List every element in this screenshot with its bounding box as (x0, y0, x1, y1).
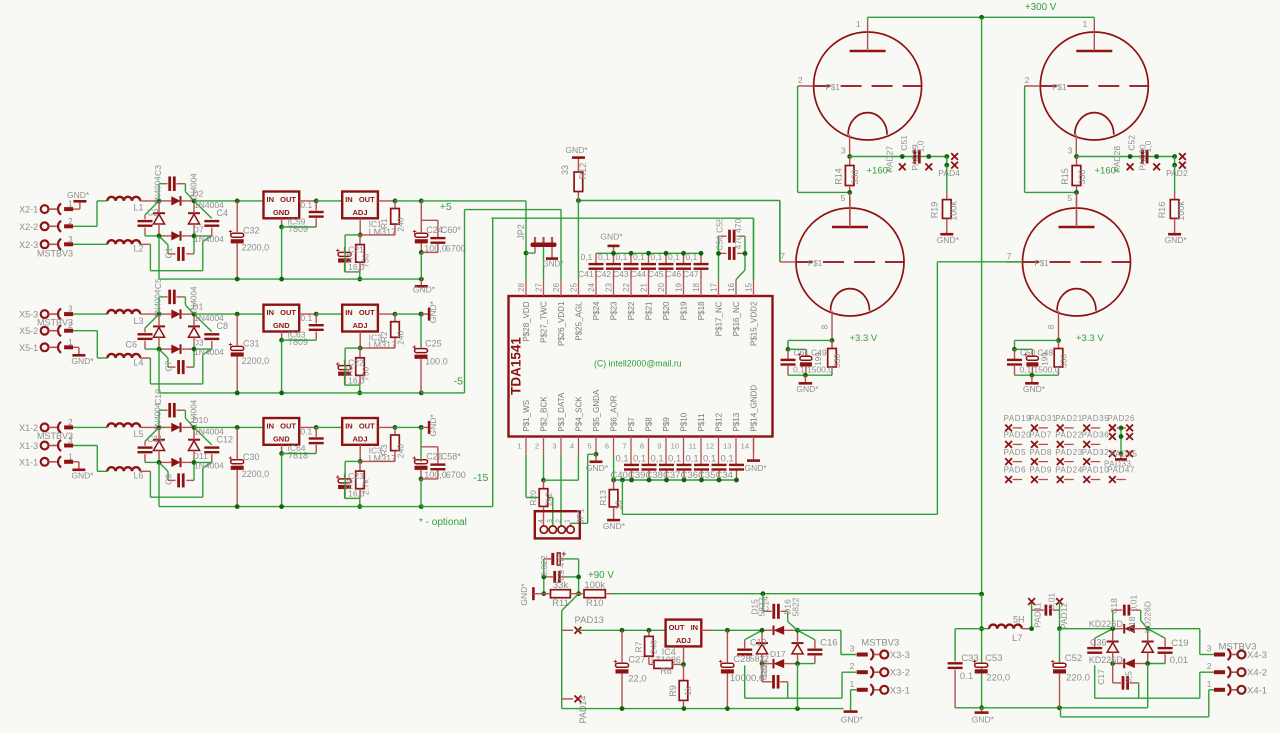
svg-text:C36: C36 (1090, 638, 1107, 648)
svg-text:0,1: 0,1 (651, 252, 663, 262)
svg-text:0,1: 0,1 (703, 454, 716, 465)
svg-text:X3-2: X3-2 (890, 668, 910, 679)
svg-text:KD226D: KD226D (1089, 655, 1124, 665)
svg-text:OUT: OUT (359, 195, 375, 204)
svg-text:ADJ: ADJ (676, 636, 691, 645)
svg-text:1N4004: 1N4004 (194, 460, 224, 470)
svg-text:C2: C2 (147, 208, 159, 218)
svg-text:330: 330 (1059, 354, 1069, 368)
svg-text:+: + (336, 248, 340, 255)
svg-text:R15: R15 (1060, 168, 1070, 185)
svg-text:R14: R14 (833, 168, 843, 185)
svg-text:1: 1 (1207, 679, 1212, 689)
svg-text:1N4004: 1N4004 (194, 347, 224, 357)
svg-text:C58*: C58* (441, 452, 462, 462)
svg-text:0,1: 0,1 (668, 252, 680, 262)
svg-text:X5-1: X5-1 (19, 343, 38, 353)
svg-text:IN: IN (345, 422, 353, 431)
svg-text:C43: C43 (613, 269, 629, 279)
svg-text:0,022: 0,022 (539, 555, 549, 577)
svg-text:21: 21 (640, 283, 649, 292)
svg-text:GND*: GND* (413, 285, 436, 295)
svg-text:X2-1: X2-1 (19, 205, 38, 215)
svg-text:R8: R8 (660, 666, 672, 676)
svg-text:MSTBV3: MSTBV3 (861, 637, 899, 648)
svg-text:3: 3 (841, 146, 846, 156)
svg-text:C6: C6 (126, 339, 138, 349)
svg-text:C9: C9 (164, 474, 174, 485)
svg-text:PAD30: PAD30 (1138, 144, 1148, 171)
svg-text:PAD15: PAD15 (1110, 449, 1138, 458)
svg-text:P$21: P$21 (645, 301, 654, 320)
svg-text:7809: 7809 (288, 224, 308, 234)
svg-text:0,01: 0,01 (1170, 655, 1189, 666)
svg-text:1: 1 (850, 679, 855, 689)
svg-text:D18: D18 (1127, 616, 1137, 632)
svg-text:11: 11 (689, 442, 697, 451)
svg-text:+: + (1051, 659, 1055, 666)
svg-text:2200,0: 2200,0 (242, 243, 270, 253)
svg-text:+: + (228, 342, 232, 349)
svg-text:GND*: GND* (543, 260, 564, 269)
svg-text:PAD36: PAD36 (1082, 431, 1110, 440)
svg-text:1500,0: 1500,0 (807, 364, 833, 374)
svg-text:2200,0: 2200,0 (242, 356, 270, 366)
svg-text:28: 28 (517, 283, 526, 292)
svg-text:PAD4: PAD4 (938, 168, 960, 178)
svg-text:5: 5 (587, 442, 591, 451)
svg-text:750: 750 (361, 253, 371, 267)
svg-text:2: 2 (1025, 75, 1030, 85)
svg-text:1500,0: 1500,0 (1034, 364, 1060, 374)
svg-text:1N4004: 1N4004 (154, 402, 163, 431)
svg-text:P$2_BCK: P$2_BCK (540, 396, 549, 432)
svg-text:0,1: 0,1 (598, 252, 610, 262)
svg-text:C41: C41 (578, 269, 594, 279)
svg-text:15: 15 (745, 283, 754, 292)
svg-text:2: 2 (556, 519, 563, 523)
svg-text:C52: C52 (1127, 135, 1137, 151)
svg-text:P$14_GNDD: P$14_GNDD (750, 385, 759, 432)
svg-text:GND*: GND* (796, 384, 819, 394)
svg-text:10: 10 (671, 442, 679, 451)
svg-text:C16: C16 (820, 638, 837, 649)
svg-text:8: 8 (821, 324, 830, 329)
svg-text:GND*: GND* (428, 300, 438, 323)
svg-text:+3.3 V: +3.3 V (850, 333, 878, 344)
svg-text:D1: D1 (193, 302, 204, 312)
svg-text:X5-2: X5-2 (19, 326, 38, 336)
svg-text:P$1: P$1 (808, 259, 823, 268)
svg-text:GND*: GND* (71, 356, 94, 366)
svg-text:X1-2: X1-2 (19, 423, 38, 433)
svg-text:P$12: P$12 (715, 412, 724, 431)
svg-text:5H: 5H (1013, 615, 1025, 625)
svg-text:8: 8 (1047, 324, 1056, 329)
svg-text:20: 20 (657, 283, 666, 292)
svg-text:C31: C31 (243, 339, 260, 349)
svg-text:0,1: 0,1 (793, 364, 805, 374)
svg-text:7: 7 (622, 442, 626, 451)
svg-text:X4-1: X4-1 (1247, 685, 1267, 696)
svg-text:L3: L3 (134, 316, 144, 326)
svg-text:R3: R3 (379, 444, 389, 455)
svg-text:33k: 33k (553, 580, 569, 591)
svg-text:5822: 5822 (757, 597, 767, 616)
svg-text:D10: D10 (193, 415, 209, 425)
svg-text:P$17_NC: P$17_NC (715, 301, 724, 336)
svg-text:R12: R12 (578, 163, 588, 180)
svg-text:7809: 7809 (288, 337, 308, 347)
svg-text:C56 C55: C56 C55 (715, 217, 725, 251)
svg-text:220.0: 220.0 (1066, 673, 1090, 684)
svg-text:PAD33: PAD33 (1104, 460, 1132, 469)
svg-text:2: 2 (68, 217, 73, 226)
svg-text:0.1: 0.1 (300, 426, 312, 436)
svg-text:2: 2 (535, 442, 539, 451)
svg-text:+: + (336, 475, 340, 482)
svg-text:9: 9 (657, 442, 661, 451)
svg-text:JP2: JP2 (516, 224, 526, 240)
svg-text:PAD6: PAD6 (1004, 466, 1027, 475)
svg-text:R9: R9 (668, 685, 678, 697)
svg-text:5822: 5822 (791, 597, 801, 616)
svg-text:PAD19: PAD19 (1004, 414, 1032, 423)
svg-text:P$11: P$11 (697, 413, 706, 432)
svg-text:MSTBV3: MSTBV3 (37, 431, 73, 441)
svg-text:24: 24 (587, 283, 596, 292)
svg-text:+5: +5 (440, 201, 452, 213)
svg-text:4: 4 (538, 519, 545, 523)
svg-text:C49: C49 (811, 348, 827, 358)
svg-text:12: 12 (706, 442, 714, 451)
svg-text:D3: D3 (193, 338, 204, 348)
svg-text:L5: L5 (134, 429, 144, 439)
svg-text:C8: C8 (217, 321, 229, 331)
svg-text:GND*: GND* (565, 145, 588, 155)
svg-text:-15: -15 (473, 472, 488, 484)
svg-text:C5: C5 (153, 278, 163, 289)
svg-text:0,1: 0,1 (616, 252, 628, 262)
svg-text:PAD21: PAD21 (1055, 414, 1083, 423)
svg-text:P$3_DATA: P$3_DATA (557, 392, 566, 431)
svg-text:220,0: 220,0 (986, 673, 1010, 684)
svg-text:PAD11: PAD11 (1033, 602, 1043, 628)
svg-text:KD226D: KD226D (1089, 619, 1124, 629)
svg-text:C50: C50 (1020, 348, 1036, 358)
svg-text:* - optional: * - optional (419, 517, 467, 528)
svg-text:P$6_AOR: P$6_AOR (610, 395, 619, 431)
svg-text:25: 25 (570, 283, 579, 292)
svg-text:GND*: GND* (71, 470, 94, 480)
svg-text:+: + (413, 229, 417, 236)
svg-text:+: + (412, 456, 416, 463)
svg-text:D2: D2 (193, 188, 204, 198)
svg-text:R7: R7 (634, 641, 644, 652)
svg-text:PAD35: PAD35 (1082, 414, 1110, 423)
svg-text:2k2: 2k2 (544, 492, 554, 506)
svg-text:(C) intell2000@mail.ru: (C) intell2000@mail.ru (594, 359, 682, 369)
svg-text:3: 3 (547, 519, 554, 523)
svg-text:GND*: GND* (586, 463, 609, 473)
svg-text:2: 2 (1207, 661, 1212, 671)
svg-text:MSTBV3: MSTBV3 (37, 249, 73, 259)
svg-text:<: < (1115, 166, 1120, 176)
svg-text:X1-1: X1-1 (19, 457, 38, 467)
svg-text:C35: C35 (698, 470, 715, 481)
svg-text:0,01: 0,01 (1047, 592, 1057, 609)
svg-text:0,5: 0,5 (1124, 671, 1134, 683)
svg-text:C53: C53 (985, 653, 1002, 664)
svg-text:IN: IN (267, 422, 275, 431)
svg-text:240: 240 (396, 444, 406, 458)
svg-text:100.0: 100.0 (425, 357, 448, 367)
svg-text:P$20: P$20 (662, 301, 671, 320)
svg-text:X1-3: X1-3 (19, 441, 38, 451)
svg-text:TDA1541: TDA1541 (509, 337, 524, 395)
svg-text:R11: R11 (552, 598, 569, 609)
svg-text:1N4004: 1N4004 (154, 289, 163, 318)
svg-text:C39: C39 (628, 470, 645, 481)
svg-text:C45: C45 (648, 269, 664, 279)
svg-text:C12: C12 (217, 434, 234, 444)
svg-text:0,1: 0,1 (686, 252, 698, 262)
svg-text:P$5_GNDA: P$5_GNDA (592, 389, 601, 431)
svg-text:0.1: 0.1 (300, 313, 312, 323)
svg-text:6700: 6700 (446, 244, 466, 254)
svg-text:P$19: P$19 (680, 301, 689, 320)
svg-text:100k: 100k (1176, 201, 1186, 221)
svg-text:33: 33 (560, 165, 570, 175)
svg-text:1N4004: 1N4004 (194, 234, 224, 244)
svg-text:4: 4 (570, 442, 574, 451)
svg-text:C17: C17 (1096, 669, 1106, 685)
svg-text:C28: C28 (733, 654, 750, 665)
svg-text:PAD8: PAD8 (1029, 448, 1052, 457)
svg-text:<: < (887, 166, 892, 176)
svg-text:D17: D17 (770, 649, 786, 659)
svg-text:P$28_VDD: P$28_VDD (522, 301, 531, 341)
svg-text:240: 240 (396, 217, 406, 231)
svg-text:18: 18 (692, 283, 701, 292)
svg-text:0,1: 0,1 (633, 454, 646, 465)
svg-text:2: 2 (850, 661, 855, 671)
svg-text:C1: C1 (164, 247, 174, 258)
svg-text:PAD32: PAD32 (1082, 448, 1110, 457)
svg-text:C36: C36 (681, 470, 698, 481)
svg-text:22: 22 (622, 283, 631, 292)
svg-text:0,1: 0,1 (668, 454, 681, 465)
svg-text:JP1: JP1 (576, 508, 586, 524)
svg-text:+160: +160 (867, 166, 888, 177)
svg-text:2: 2 (68, 418, 73, 427)
svg-text:IN: IN (267, 308, 275, 317)
svg-text:L7: L7 (1012, 633, 1023, 644)
svg-text:P$25_AGL: P$25_AGL (575, 301, 584, 341)
svg-text:GND*: GND* (841, 715, 864, 725)
svg-text:240: 240 (396, 330, 406, 344)
svg-text:+: + (336, 361, 340, 368)
svg-text:2: 2 (798, 75, 803, 85)
svg-text:6700: 6700 (446, 470, 466, 480)
svg-text:1: 1 (68, 452, 73, 461)
svg-text:P$13: P$13 (732, 412, 741, 431)
svg-text:X3-1: X3-1 (890, 685, 910, 696)
svg-text:P$16_NC: P$16_NC (732, 301, 741, 336)
svg-text:GND*: GND* (519, 583, 529, 606)
svg-text:R13: R13 (598, 490, 608, 506)
svg-text:330: 330 (850, 169, 860, 184)
svg-text:X3-3: X3-3 (890, 650, 910, 661)
svg-text:P$9: P$9 (662, 417, 671, 432)
svg-text:+160: +160 (1095, 166, 1116, 177)
svg-text:1: 1 (517, 442, 521, 451)
svg-text:470 470: 470 470 (733, 218, 743, 249)
svg-text:D11: D11 (193, 451, 208, 461)
svg-text:3: 3 (1207, 644, 1212, 654)
svg-text:100k: 100k (584, 580, 605, 591)
svg-text:16: 16 (727, 283, 736, 292)
svg-text:L1: L1 (134, 203, 144, 213)
svg-text:0.1: 0.1 (300, 200, 312, 210)
svg-text:2200,0: 2200,0 (242, 469, 270, 479)
svg-text:P$23: P$23 (610, 301, 619, 320)
svg-text:PAD13: PAD13 (575, 615, 604, 626)
svg-text:R6: R6 (345, 479, 354, 490)
svg-text:C52: C52 (1065, 653, 1082, 664)
svg-text:C13: C13 (750, 638, 767, 648)
svg-text:PAD26: PAD26 (1107, 414, 1135, 423)
svg-text:MSTBV3: MSTBV3 (37, 318, 73, 328)
svg-text:IN: IN (691, 623, 699, 632)
svg-text:X5-3: X5-3 (19, 310, 38, 320)
svg-text:7: 7 (1007, 251, 1012, 261)
svg-text:C32: C32 (243, 225, 260, 235)
svg-text:ADJ: ADJ (352, 321, 367, 330)
svg-text:IN: IN (267, 195, 275, 204)
svg-text:1: 1 (68, 200, 73, 209)
svg-text:IN: IN (345, 308, 353, 317)
svg-text:0,1: 0,1 (1020, 364, 1032, 374)
svg-text:3: 3 (68, 235, 73, 244)
svg-text:R19: R19 (929, 202, 939, 219)
svg-text:100,0: 100,0 (424, 244, 447, 254)
svg-text:P$4_SCK: P$4_SCK (575, 396, 584, 432)
svg-text:5: 5 (840, 193, 845, 203)
svg-text:23: 23 (605, 283, 614, 292)
svg-text:+: + (228, 456, 232, 463)
svg-text:17: 17 (710, 283, 719, 292)
svg-text:0.1: 0.1 (960, 671, 973, 682)
svg-text:6: 6 (605, 442, 609, 451)
svg-text:OUT: OUT (359, 422, 375, 431)
svg-text:0,1: 0,1 (581, 252, 593, 262)
svg-text:P$26_VDD1: P$26_VDD1 (557, 301, 566, 346)
svg-text:ADJ: ADJ (352, 435, 367, 444)
svg-text:X4-2: X4-2 (1247, 668, 1267, 679)
svg-text:19: 19 (675, 283, 684, 292)
svg-text:P$24: P$24 (592, 301, 601, 320)
svg-text:GND*: GND* (1023, 384, 1046, 394)
svg-text:1k: 1k (683, 686, 693, 696)
svg-text:PAD24: PAD24 (1055, 466, 1083, 475)
svg-text:7: 7 (780, 251, 785, 261)
svg-text:C51: C51 (899, 135, 909, 151)
svg-text:L2: L2 (134, 244, 144, 254)
svg-text:GND*: GND* (67, 190, 90, 200)
svg-text:R20: R20 (528, 490, 538, 506)
svg-text:C47: C47 (683, 269, 699, 279)
svg-text:C46: C46 (666, 269, 682, 279)
svg-text:C11: C11 (147, 434, 163, 444)
svg-text:C10: C10 (153, 389, 163, 405)
svg-text:C61: C61 (794, 348, 810, 358)
svg-text:C30: C30 (243, 452, 260, 462)
svg-text:P$1: P$1 (826, 83, 841, 92)
svg-text:OUT: OUT (280, 308, 296, 317)
svg-text:750: 750 (361, 367, 371, 381)
svg-text:5822: 5822 (759, 659, 769, 678)
svg-text:100k: 100k (948, 201, 958, 221)
svg-text:+300 V: +300 V (1025, 2, 1057, 13)
svg-text:C4: C4 (217, 208, 229, 218)
svg-text:PAD2: PAD2 (1166, 168, 1188, 178)
svg-text:C34: C34 (716, 470, 733, 481)
svg-text:1: 1 (1083, 19, 1088, 29)
svg-text:C44: C44 (631, 269, 647, 279)
svg-text:240: 240 (649, 640, 659, 654)
svg-text:C25: C25 (425, 339, 442, 349)
svg-text:R10: R10 (586, 598, 603, 609)
svg-text:PAD22: PAD22 (1055, 431, 1083, 440)
svg-text:C60*: C60* (441, 225, 462, 235)
svg-text:+3.3 V: +3.3 V (1076, 333, 1104, 344)
svg-text:0,1: 0,1 (686, 454, 699, 465)
svg-text:100,0: 100,0 (424, 470, 447, 480)
svg-text:+: + (972, 659, 976, 666)
svg-text:R16: R16 (1157, 202, 1167, 219)
svg-text:X2-2: X2-2 (19, 222, 38, 232)
svg-text:OUT: OUT (669, 623, 685, 632)
svg-text:GND*: GND* (745, 463, 768, 473)
svg-text:1: 1 (68, 338, 73, 347)
svg-text:8: 8 (640, 442, 644, 451)
svg-text:C48: C48 (1038, 348, 1054, 358)
svg-text:GND*: GND* (972, 715, 995, 725)
svg-text:P$22: P$22 (627, 301, 636, 320)
svg-text:-5: -5 (454, 375, 463, 387)
svg-text:C19: C19 (1171, 638, 1188, 649)
svg-text:C42: C42 (596, 269, 612, 279)
svg-text:X4-3: X4-3 (1247, 650, 1267, 661)
svg-text:+: + (228, 229, 232, 236)
svg-text:GND*: GND* (428, 414, 438, 437)
svg-text:0,1: 0,1 (616, 454, 629, 465)
svg-text:0,1: 0,1 (633, 252, 645, 262)
svg-text:L6: L6 (134, 471, 144, 481)
svg-text:P$18: P$18 (697, 301, 706, 320)
svg-text:27: 27 (535, 283, 544, 292)
svg-text:OUT: OUT (280, 422, 296, 431)
svg-text:3: 3 (68, 305, 73, 314)
svg-text:330: 330 (832, 354, 842, 368)
svg-text:0,1: 0,1 (651, 454, 664, 465)
svg-text:PAD20: PAD20 (1004, 431, 1032, 440)
svg-text:+: + (719, 659, 723, 666)
svg-text:PAD12: PAD12 (1059, 603, 1069, 630)
svg-text:P$1_WS: P$1_WS (522, 400, 531, 432)
svg-text:R5: R5 (345, 365, 354, 376)
